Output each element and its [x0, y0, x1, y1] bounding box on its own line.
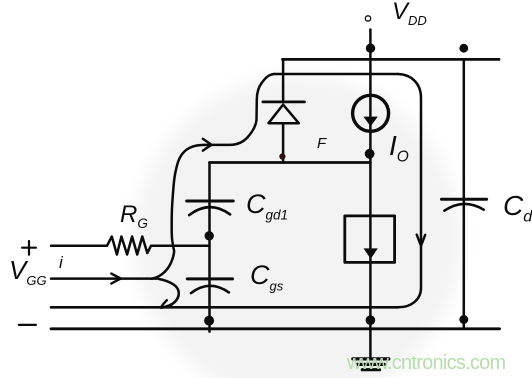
- node dot bottom rail gate: [204, 316, 214, 326]
- wire top rail VDD: [283, 58, 500, 61]
- wire hook into return rail: [159, 279, 179, 308]
- node dot F junction: [365, 149, 375, 159]
- wire current loop right descent: [398, 74, 421, 307]
- node dot top rail drain: [366, 44, 375, 53]
- label Cgd1: [246, 191, 288, 222]
- capacitor Cd: [442, 199, 487, 211]
- node dot bottom rail Cd: [459, 315, 468, 324]
- label Cd: [503, 192, 532, 226]
- resistor RG with plus wire: [51, 237, 210, 255]
- node dot diode anode: [279, 153, 285, 159]
- node VDD terminal circle: [365, 16, 370, 21]
- label plus terminal: [22, 241, 36, 255]
- wire bottom rail: [51, 327, 500, 330]
- label IO: [389, 132, 409, 165]
- arrowhead inside IO circle: [363, 117, 377, 127]
- capacitor Cgs: [187, 279, 232, 293]
- wire current loop path left S-curve: [151, 74, 274, 279]
- watermark: [347, 352, 505, 375]
- node dot top rail Cd: [459, 44, 468, 53]
- controlled source box: [345, 216, 395, 263]
- wire Cd branch vertical: [463, 59, 466, 328]
- label minus terminal: [19, 324, 36, 326]
- capacitor Cgd1: [187, 201, 234, 215]
- label RG: [120, 203, 148, 230]
- wire gate vertical: [208, 163, 211, 332]
- node dot bottom rail source: [366, 315, 376, 325]
- current source IO circle: [353, 95, 389, 131]
- label VGG: [9, 257, 47, 287]
- ground: [353, 359, 389, 370]
- diode D1: [263, 59, 305, 162]
- label F: [317, 136, 326, 151]
- label i: [59, 254, 63, 271]
- wire drain vertical and ground stem: [369, 30, 372, 357]
- arrowhead on wire i: [111, 274, 121, 284]
- arrowhead on right descent: [417, 235, 426, 246]
- arrowhead inside box: [364, 248, 378, 259]
- node dot gate Cgd1 junction: [205, 231, 214, 240]
- arrowhead on hook: [161, 300, 172, 307]
- label Cgs: [250, 262, 283, 292]
- arrowhead on S-curve: [203, 139, 212, 151]
- wire node F horizontal: [210, 161, 371, 164]
- wire input current i: [51, 277, 157, 280]
- wire current loop return rail: [51, 306, 398, 309]
- wire current loop top edge: [274, 73, 398, 76]
- label VDD: [392, 0, 427, 27]
